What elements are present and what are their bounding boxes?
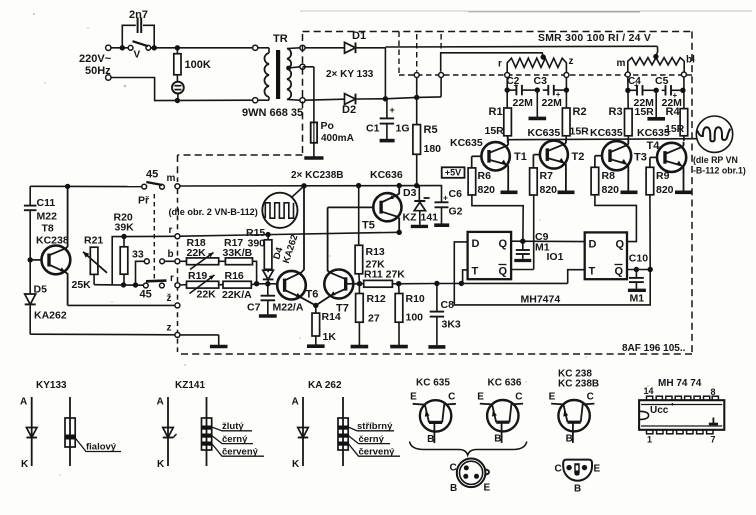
svg-text:r: r — [498, 59, 502, 70]
svg-text:T8: T8 — [42, 223, 54, 235]
svg-text:B: B — [494, 434, 501, 445]
svg-text:C3: C3 — [534, 75, 548, 87]
wire pin bl to R4 — [680, 77, 685, 109]
legend transistor KC238 — [549, 369, 600, 445]
svg-text:T2: T2 — [572, 151, 585, 163]
switch bus dashed line — [177, 189, 179, 352]
svg-text:KC 635: KC 635 — [416, 378, 450, 389]
capacitor C5 22M — [655, 75, 682, 109]
label IO1 — [547, 251, 564, 263]
svg-text:9WN 668 35: 9WN 668 35 — [242, 107, 303, 119]
resistor R15 390 — [246, 227, 272, 269]
svg-text:C5: C5 — [655, 75, 669, 87]
svg-text:C6: C6 — [449, 188, 463, 200]
svg-text:22K: 22K — [197, 289, 217, 301]
svg-text:A: A — [157, 397, 164, 408]
svg-text:červený: červený — [359, 447, 396, 458]
wire T1 collector — [507, 136, 510, 141]
transistor T1 KC635 — [450, 137, 527, 172]
svg-text:R2: R2 — [573, 106, 587, 118]
svg-text:15R: 15R — [635, 106, 655, 118]
ground (C8) — [428, 345, 445, 349]
svg-text:22K: 22K — [187, 247, 207, 259]
legend KY133 body — [65, 397, 121, 466]
svg-text:R16: R16 — [225, 270, 244, 282]
wire D input FF1 from FF2 Qbar — [454, 242, 650, 305]
connector pin (supply) — [414, 73, 419, 78]
node C4-C5 — [654, 88, 659, 93]
resistor R13 27K — [355, 186, 385, 284]
svg-text:R3: R3 — [609, 106, 623, 118]
transformer TR secondary winding — [286, 48, 300, 100]
svg-text:100: 100 — [406, 312, 424, 324]
scan specks (decorative) — [33, 13, 696, 476]
svg-text:820: 820 — [478, 184, 496, 196]
svg-text:V: V — [134, 50, 141, 61]
svg-text:33K/B: 33K/B — [223, 247, 253, 259]
legend IC MH7474 package — [639, 386, 724, 444]
capacitor C7 M22/A — [247, 284, 304, 315]
resistor R6 820 — [468, 156, 495, 196]
svg-text:D2: D2 — [342, 104, 356, 116]
legend label KZ141 — [175, 380, 205, 391]
svg-text:m: m — [167, 173, 176, 184]
wire r2 rail — [180, 284, 187, 286]
svg-text:KZ: KZ — [403, 211, 418, 223]
resistor R8 820 — [591, 156, 619, 196]
box +5V — [442, 167, 465, 178]
svg-text:T5: T5 — [362, 220, 375, 232]
secondary terminal top — [300, 45, 305, 50]
svg-text:Q: Q — [499, 238, 508, 250]
wire collector rail to head — [508, 139, 697, 140]
svg-text:C1: C1 — [366, 123, 380, 135]
capacitor 2n7 — [122, 18, 154, 48]
wire FF2 Q to R8 — [595, 195, 637, 242]
capacitor C6 G2 — [435, 186, 463, 224]
svg-text:B: B — [450, 483, 457, 494]
svg-text:G2: G2 — [449, 206, 463, 218]
capacitor C8 3K3 — [430, 284, 461, 346]
wire D1 output — [383, 48, 388, 102]
resistor R14 1K — [312, 303, 341, 343]
svg-text:C8: C8 — [441, 299, 455, 311]
wire z rail — [30, 333, 175, 336]
svg-text:45: 45 — [140, 289, 152, 301]
legend transistor KC635 — [410, 378, 456, 445]
label D4 KA262 rotated — [271, 233, 300, 265]
svg-text:M1: M1 — [535, 242, 550, 254]
capacitor C3 22M — [534, 75, 566, 109]
contact z — [167, 323, 180, 338]
label Pr — [138, 195, 150, 207]
resistor R9 820 — [646, 157, 674, 196]
legend diode KY133 — [20, 397, 37, 471]
transistor T3 KC635 — [590, 127, 647, 171]
ground (z rail) — [210, 335, 228, 347]
svg-text:R4: R4 — [666, 106, 681, 118]
trimmer R18 22K — [187, 237, 219, 270]
wire anode rail to head tap 2 — [385, 46, 658, 59]
svg-text:C: C — [450, 463, 457, 474]
legend KC238 pinout — [555, 460, 601, 495]
wire FF1 Qbar to R7 — [511, 195, 534, 270]
svg-text:fialový: fialový — [86, 442, 117, 453]
label SMR 300 100 RI/24V — [538, 33, 651, 44]
transistor T8 KC238 — [28, 186, 71, 305]
wire T7 base node — [354, 281, 364, 286]
svg-text:B: B — [427, 434, 434, 445]
svg-text:D5: D5 — [34, 284, 48, 296]
svg-text:m: m — [617, 58, 626, 69]
wire oscillator node — [392, 270, 584, 287]
svg-text:R19: R19 — [188, 270, 207, 282]
wire r rail — [180, 230, 402, 238]
wire pin m to R3 — [625, 77, 630, 109]
transistor T7 KC238B — [316, 207, 360, 314]
wire FF1 Q to FF2 D — [511, 239, 585, 244]
svg-text:A: A — [20, 397, 27, 408]
resistor R11 27K — [364, 269, 406, 288]
switch 45 (bottom) — [140, 281, 167, 301]
capacitor C2 22M — [507, 76, 538, 109]
svg-text:MH 74 74: MH 74 74 — [658, 378, 702, 389]
label 2x KC238B — [291, 170, 344, 181]
svg-text:Po: Po — [321, 120, 334, 132]
label dle RP VN-B-112 — [693, 155, 746, 176]
svg-text:E: E — [549, 392, 556, 403]
label T8 KC238 — [36, 223, 69, 247]
svg-text:r: r — [169, 225, 173, 236]
svg-text:žlutý: žlutý — [222, 421, 244, 432]
svg-text:8AF 196 105..: 8AF 196 105.. — [622, 343, 686, 354]
svg-text:r: r — [170, 273, 174, 284]
svg-text:27: 27 — [368, 313, 380, 325]
svg-text:b: b — [168, 249, 174, 260]
svg-text:M22/A: M22/A — [273, 302, 304, 314]
capacitor C4 22M — [628, 76, 656, 109]
wire mains N to transformer — [111, 78, 252, 104]
diode D1 — [305, 30, 385, 53]
wire mains L to switch — [111, 45, 128, 50]
svg-text:8: 8 — [711, 387, 716, 397]
svg-text:2× KC238B: 2× KC238B — [291, 170, 344, 181]
svg-text:B: B — [574, 484, 581, 495]
resistor R7 820 — [530, 155, 558, 196]
contact r top — [169, 225, 180, 239]
svg-text:400mA: 400mA — [321, 133, 354, 144]
legend label MH7474 — [658, 378, 702, 389]
label 9WN 668 35 — [242, 107, 303, 119]
connector pin (supply 2) — [439, 73, 444, 78]
svg-text:45: 45 — [146, 169, 158, 181]
svg-text:15R: 15R — [570, 126, 590, 138]
svg-text:T1: T1 — [514, 151, 527, 163]
svg-text:R11 27K: R11 27K — [364, 269, 405, 281]
transformer TR core — [276, 50, 280, 99]
svg-text:1K: 1K — [323, 331, 337, 343]
svg-text:R14: R14 — [322, 311, 341, 323]
svg-text:ž: ž — [167, 293, 172, 304]
svg-text:D1: D1 — [352, 30, 366, 42]
svg-text:K: K — [21, 459, 29, 470]
svg-text:K: K — [292, 459, 300, 470]
ground (R14) — [307, 336, 325, 346]
svg-text:R7: R7 — [540, 170, 554, 182]
svg-text:22K/A: 22K/A — [222, 289, 252, 301]
svg-text:C: C — [555, 464, 562, 475]
head RP VN-B-112 — [696, 116, 732, 152]
resistor R3 15R — [609, 106, 655, 142]
secondary terminal bottom — [300, 98, 305, 103]
ground (D3) — [411, 225, 428, 228]
svg-text:7: 7 — [711, 435, 716, 445]
label KC636 — [370, 169, 403, 181]
svg-text:D3: D3 — [403, 187, 417, 199]
svg-text:D: D — [589, 239, 597, 251]
svg-text:+: + — [443, 193, 448, 203]
label TR — [273, 33, 288, 45]
svg-text:KA262: KA262 — [34, 310, 67, 322]
svg-text:TR: TR — [273, 33, 288, 45]
svg-text:K: K — [157, 459, 165, 470]
svg-text:C10: C10 — [629, 253, 648, 265]
mains terminal L — [106, 45, 111, 50]
wire R17 to T6 base node — [253, 261, 260, 286]
svg-text:E: E — [484, 483, 491, 494]
svg-text:820: 820 — [602, 184, 620, 196]
resistor R20 39K — [114, 212, 135, 285]
svg-text:R21: R21 — [84, 235, 103, 247]
label MH7474 — [521, 294, 561, 306]
wire T8 emitter to contact z-dot — [68, 304, 175, 306]
svg-text:141: 141 — [421, 211, 439, 223]
transformer TR primary winding — [253, 45, 269, 103]
svg-text:1: 1 — [647, 435, 652, 445]
transistor T6 KC238B — [277, 186, 318, 306]
svg-text:z: z — [569, 56, 574, 67]
svg-text:C7: C7 — [247, 302, 261, 314]
head element 2 (m-bl) — [617, 55, 696, 73]
contact m — [167, 173, 180, 189]
svg-text:T4: T4 — [647, 140, 661, 152]
zener diode D3 KZ141 — [403, 186, 439, 225]
resistor R1 15R — [485, 106, 512, 143]
svg-text:Q: Q — [499, 266, 508, 278]
ground (C2/C3) — [529, 90, 547, 118]
resistor R5 180 — [413, 97, 441, 185]
svg-text:2× KY 133: 2× KY 133 — [326, 69, 374, 80]
diode D5 KA262 — [25, 262, 67, 334]
legend zener KZ141 — [157, 397, 177, 471]
connector pin bl — [681, 72, 686, 77]
potentiometer R21 25K — [72, 235, 108, 292]
svg-text:E: E — [477, 392, 484, 403]
contact r bottom — [170, 273, 180, 288]
wire T input FF1 — [459, 270, 468, 286]
capacitor C10 M1 — [629, 253, 648, 305]
svg-text:R8: R8 — [602, 170, 616, 182]
svg-text:A: A — [292, 397, 299, 408]
svg-text:220V~: 220V~ — [79, 53, 112, 65]
ground (C9) — [514, 259, 531, 262]
svg-text:KC 636: KC 636 — [488, 378, 522, 389]
head element 1 (r-z) — [498, 56, 574, 73]
svg-text:R5: R5 — [424, 124, 438, 136]
label 220V~ 50Hz — [79, 53, 112, 77]
connector pin r — [505, 73, 510, 78]
svg-text:M1: M1 — [630, 293, 645, 305]
svg-text:+5V: +5V — [445, 168, 461, 178]
svg-text:E: E — [410, 392, 417, 403]
svg-text:100K: 100K — [185, 59, 211, 71]
legend TO-18 pinout — [450, 459, 491, 495]
svg-text:(dle obr. 2 VN-B-112): (dle obr. 2 VN-B-112) — [169, 207, 258, 217]
svg-text:T: T — [472, 266, 479, 278]
svg-text:R6: R6 — [478, 170, 492, 182]
svg-text:KC635: KC635 — [637, 127, 670, 139]
switch V — [128, 41, 151, 60]
connector pin m — [625, 72, 630, 77]
svg-text:černý: černý — [222, 434, 248, 445]
svg-text:KC636: KC636 — [370, 169, 403, 181]
svg-text:C11: C11 — [37, 197, 56, 209]
svg-text:C: C — [587, 392, 594, 403]
svg-text:33: 33 — [132, 249, 144, 261]
svg-text:180: 180 — [424, 143, 442, 155]
wire pin z to R2 — [564, 78, 569, 109]
svg-text:+: + — [514, 81, 519, 90]
legend KZ141 body — [202, 397, 265, 466]
resistor R10 100 — [395, 284, 425, 324]
diode D2 — [305, 94, 385, 116]
fuse Po 400mA — [303, 67, 354, 144]
svg-text:C: C — [448, 392, 455, 403]
svg-text:+: + — [390, 105, 395, 115]
svg-text:KY133: KY133 — [36, 380, 67, 391]
svg-text:820: 820 — [540, 184, 558, 196]
module boundary dashed box — [178, 32, 693, 355]
ground (C1) — [380, 139, 395, 143]
node C2-C3 — [535, 87, 540, 92]
secondary terminal tap — [300, 64, 305, 69]
wire r contact left branch — [112, 234, 175, 285]
ground (C4/C5) — [647, 90, 665, 119]
resistor 100K — [174, 48, 211, 82]
svg-text:stříbrný: stříbrný — [357, 421, 393, 432]
svg-text:14: 14 — [644, 386, 654, 396]
ground (T1 emitter) — [501, 171, 518, 193]
svg-text:22M: 22M — [542, 97, 563, 109]
diode D4 KA262 — [0, 0, 273, 284]
svg-text:Q: Q — [615, 266, 624, 278]
wire R9 to FF2 Qbar — [649, 195, 651, 270]
svg-text:B: B — [566, 434, 573, 445]
contact b — [168, 249, 180, 264]
capacitor C11 M22 — [24, 186, 57, 260]
svg-text:KC635: KC635 — [528, 127, 561, 139]
svg-text:KA 262: KA 262 — [308, 380, 342, 391]
resistor R16 22K/A — [219, 270, 252, 301]
svg-text:Př: Př — [138, 195, 150, 207]
svg-text:R12: R12 — [367, 293, 386, 305]
svg-text:’: ’ — [671, 402, 674, 413]
wire b rail — [180, 260, 187, 262]
svg-text:1G: 1G — [396, 123, 410, 135]
legend brace — [410, 442, 527, 456]
contact zdot — [167, 293, 180, 308]
svg-text:R9: R9 — [656, 170, 670, 182]
resistor R12 27 — [356, 284, 386, 325]
label 2x KY 133 — [326, 69, 374, 80]
wire top rail left — [30, 184, 142, 189]
resistor R2 15R — [562, 106, 589, 141]
legend label KY133 — [36, 380, 67, 391]
svg-text:(dle RP VN: (dle RP VN — [693, 155, 738, 165]
ground (T4 emitter) — [675, 172, 692, 192]
switch coupling dashed — [153, 194, 155, 280]
svg-text:SMR 300 100 RI / 24 V: SMR 300 100 RI / 24 V — [538, 33, 651, 44]
svg-text:T3: T3 — [634, 152, 647, 164]
svg-text:KC635: KC635 — [450, 137, 483, 149]
svg-text:M22: M22 — [37, 211, 58, 223]
transistor T2 KC635 — [528, 127, 585, 170]
wire supply pin to head tap 1 — [441, 53, 546, 72]
wire pin r to R1 — [505, 78, 510, 109]
wire z to ground — [180, 334, 219, 336]
resistor R17 33K/B — [219, 237, 253, 265]
wire R21 bottom rail — [94, 282, 143, 288]
svg-text:T: T — [589, 266, 596, 278]
ground (T2 emitter) — [558, 169, 575, 193]
svg-text:E: E — [594, 464, 601, 475]
svg-text:červený: červený — [222, 447, 259, 458]
wire R6 to FF1 Q node — [472, 195, 523, 241]
svg-text:Q: Q — [616, 239, 625, 251]
ground (C10) — [628, 289, 646, 292]
svg-text:25K: 25K — [72, 279, 92, 291]
svg-text:C: C — [515, 392, 522, 403]
neon indicator lamp — [172, 82, 184, 101]
svg-text:22M: 22M — [513, 97, 534, 109]
svg-text:R13: R13 — [366, 246, 385, 258]
flip-flop IO1b MH7474 — [585, 232, 627, 279]
head VN-B-112 — [262, 186, 304, 228]
capacitor C9 M1 — [516, 231, 550, 259]
svg-text:T6: T6 — [306, 289, 319, 301]
resistor R4 15R — [665, 106, 688, 141]
svg-text:R1: R1 — [489, 106, 503, 118]
wire R16 to T6 base — [251, 281, 277, 286]
legend diode KA262 — [292, 397, 309, 471]
capacitor 2n7 label — [129, 9, 148, 21]
label dle obr 2 VN-B-112 — [169, 207, 258, 217]
ground (T3 emitter) — [621, 170, 638, 192]
terminal 33 — [132, 249, 149, 285]
svg-text:KC635: KC635 — [590, 127, 623, 139]
ground (C6) — [434, 223, 449, 227]
svg-text:39K: 39K — [115, 222, 135, 234]
svg-text:3K3: 3K3 — [442, 319, 461, 331]
legend KA262 body — [338, 397, 400, 466]
transistor T4 KC635 — [637, 127, 686, 173]
svg-text:-B-112 obr.1): -B-112 obr.1) — [693, 165, 746, 175]
wire +5V rail — [180, 183, 440, 189]
transistor T5 KC636 — [328, 186, 402, 233]
spare contact — [160, 259, 175, 264]
svg-text:R10: R10 — [406, 293, 425, 305]
capacitor C1 1G — [366, 99, 410, 140]
